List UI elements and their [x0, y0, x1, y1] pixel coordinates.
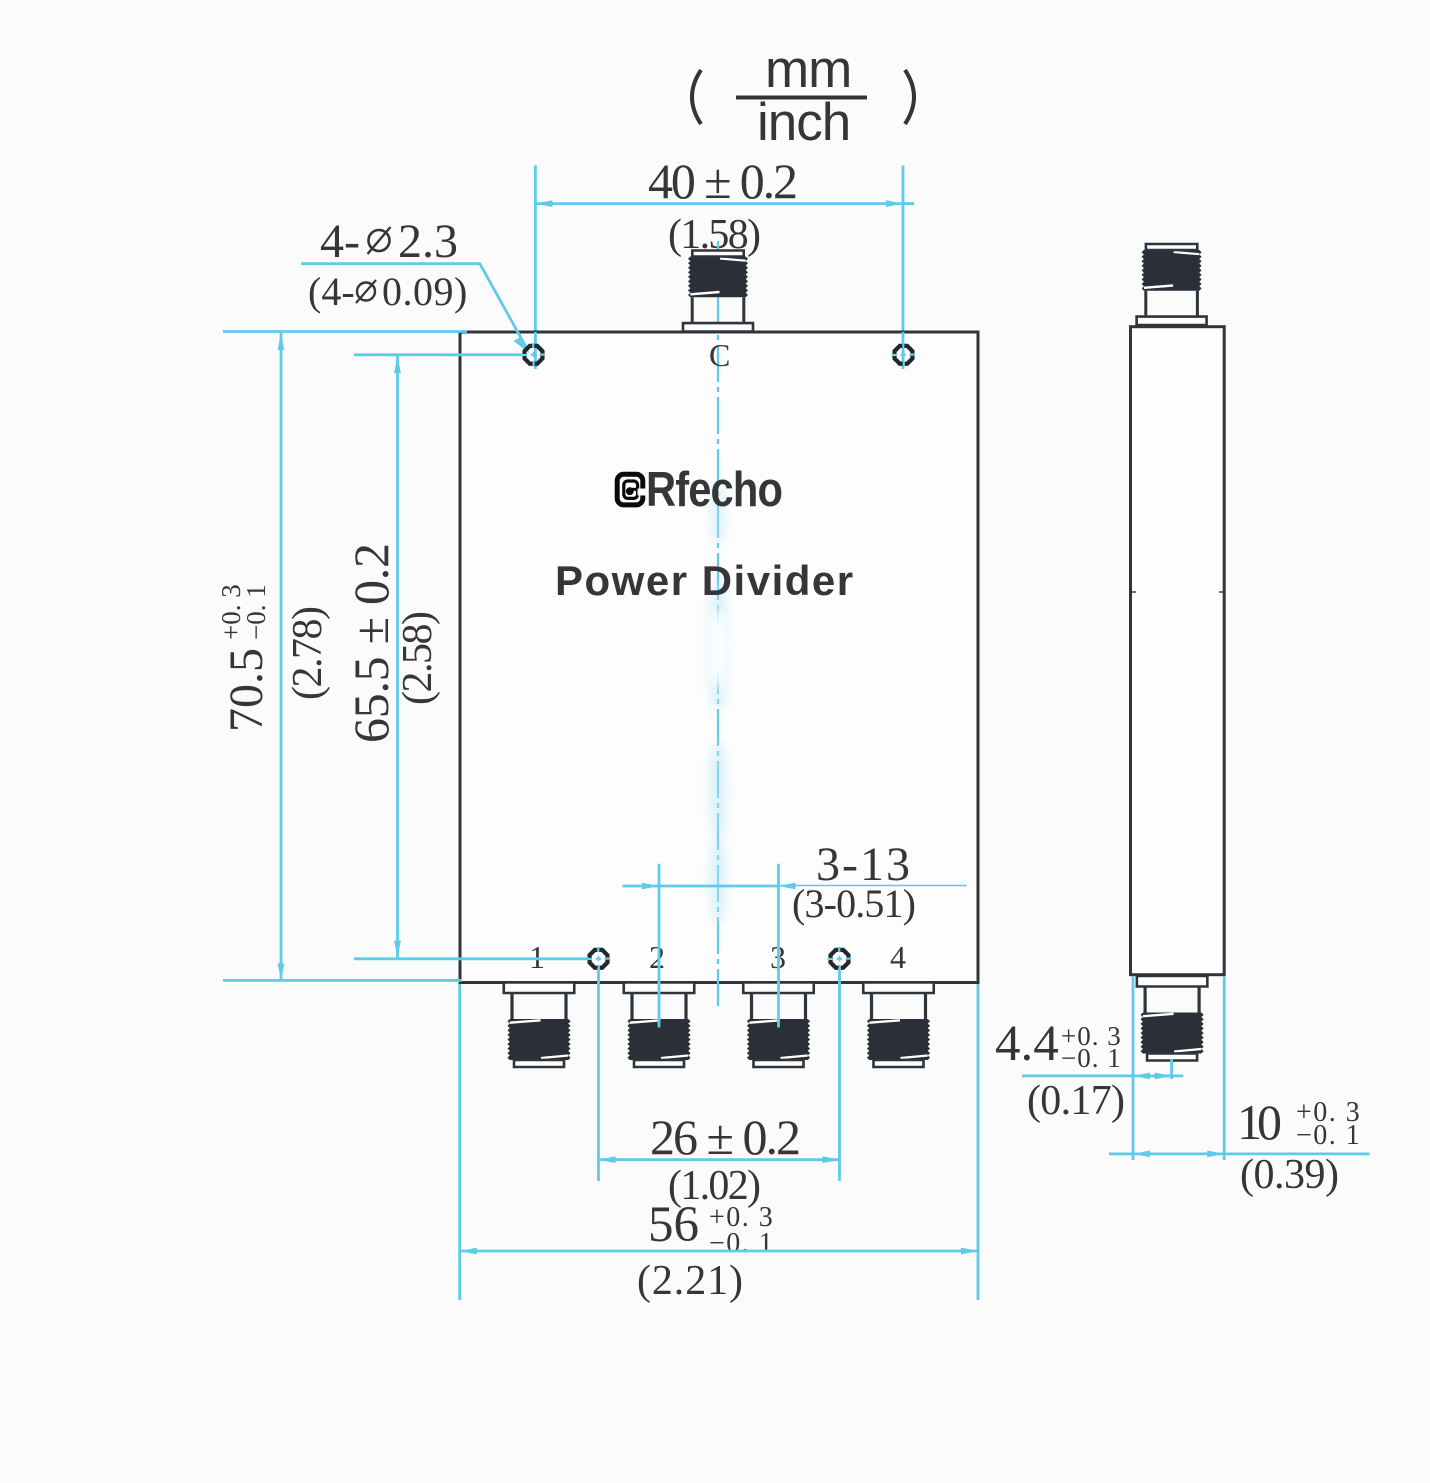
connector port 2	[624, 983, 695, 1068]
svg-text:1: 1	[529, 939, 545, 975]
svg-text:−0. 1: −0. 1	[1061, 1043, 1122, 1073]
leader line into top-left hole	[301, 264, 530, 354]
front view body outline	[460, 332, 978, 983]
svg-text:0.09): 0.09)	[382, 269, 468, 314]
svg-text:inch: inch	[757, 93, 850, 152]
svg-text:−0. 1: −0. 1	[1296, 1120, 1361, 1151]
side view parting ticks	[1131, 591, 1137, 593]
svg-text:56: 56	[648, 1197, 699, 1253]
svg-text:70.5: 70.5	[220, 648, 273, 732]
svg-text:(3-0.51): (3-0.51)	[792, 881, 916, 926]
svg-text:mm: mm	[765, 40, 851, 99]
dimension 4.4 +0.3/-0.1 (0.17)	[995, 1016, 1183, 1124]
svg-text:4.4: 4.4	[995, 1016, 1059, 1072]
dimension 10 +0.3/-0.1 (0.39)	[1109, 976, 1370, 1198]
unit note (mm/inch)	[692, 40, 914, 152]
svg-text:C: C	[709, 337, 730, 373]
connector C (top SMA)	[683, 251, 753, 332]
connector port 1	[504, 983, 575, 1068]
white flare on centerline	[708, 608, 728, 688]
dimension 3-13 (3-0.51) bottom ports	[623, 838, 968, 1028]
svg-text:4: 4	[890, 939, 906, 975]
soft centerline glow	[0, 0, 1, 1]
svg-text:(2.58): (2.58)	[395, 611, 441, 705]
dimension 56 +0.3/-0.1 (2.21)	[460, 984, 978, 1304]
40-dim extension continuation through top holes	[535, 332, 903, 369]
svg-text:−0. 1: −0. 1	[241, 584, 271, 640]
svg-text:(2.78): (2.78)	[285, 606, 331, 700]
screw hole bottom-right	[828, 947, 852, 971]
dimension 70.5 +0.3/-0.1 (2.78) left	[216, 332, 467, 981]
connector port 4	[863, 983, 934, 1068]
svg-text:(2.21): (2.21)	[637, 1258, 743, 1304]
svg-text:26 ± 0.2: 26 ± 0.2	[650, 1109, 801, 1165]
svg-text:Rfecho: Rfecho	[646, 462, 782, 517]
svg-text:2: 2	[649, 939, 665, 975]
dimension 40±0.2 (1.58) top	[535, 153, 914, 368]
svg-text:40 ± 0.2: 40 ± 0.2	[648, 153, 798, 209]
side view bottom SMA	[1137, 976, 1208, 1061]
svg-text:2.3: 2.3	[398, 215, 458, 268]
dimension 65.5±0.2 (2.58) left inner	[343, 355, 589, 959]
side view top SMA	[1137, 244, 1207, 325]
svg-text:(0.39): (0.39)	[1240, 1152, 1339, 1198]
side view body outline	[1131, 327, 1225, 975]
svg-text:(4-: (4-	[308, 269, 355, 314]
connector port 3	[743, 983, 814, 1068]
screw hole bottom-left	[587, 947, 611, 971]
Rfecho logo text	[646, 462, 782, 517]
screw hole top-right	[892, 343, 916, 367]
leader 4-Ø2.3 (4-Ø0.09)	[308, 215, 468, 314]
svg-text:−0. 1: −0. 1	[709, 1228, 774, 1259]
svg-text:Power Divider: Power Divider	[555, 557, 855, 604]
svg-text:65.5 ± 0.2: 65.5 ± 0.2	[343, 543, 399, 743]
centerline port C (vertical dash-dot)	[717, 241, 719, 1008]
Rfecho logo mark	[617, 474, 646, 505]
screw hole top-left	[522, 343, 546, 367]
dimension 26±0.2 (1.02)	[599, 968, 840, 1209]
svg-text:10: 10	[1237, 1094, 1282, 1150]
svg-text:4-: 4-	[320, 215, 360, 268]
svg-text:(0.17): (0.17)	[1027, 1078, 1125, 1124]
